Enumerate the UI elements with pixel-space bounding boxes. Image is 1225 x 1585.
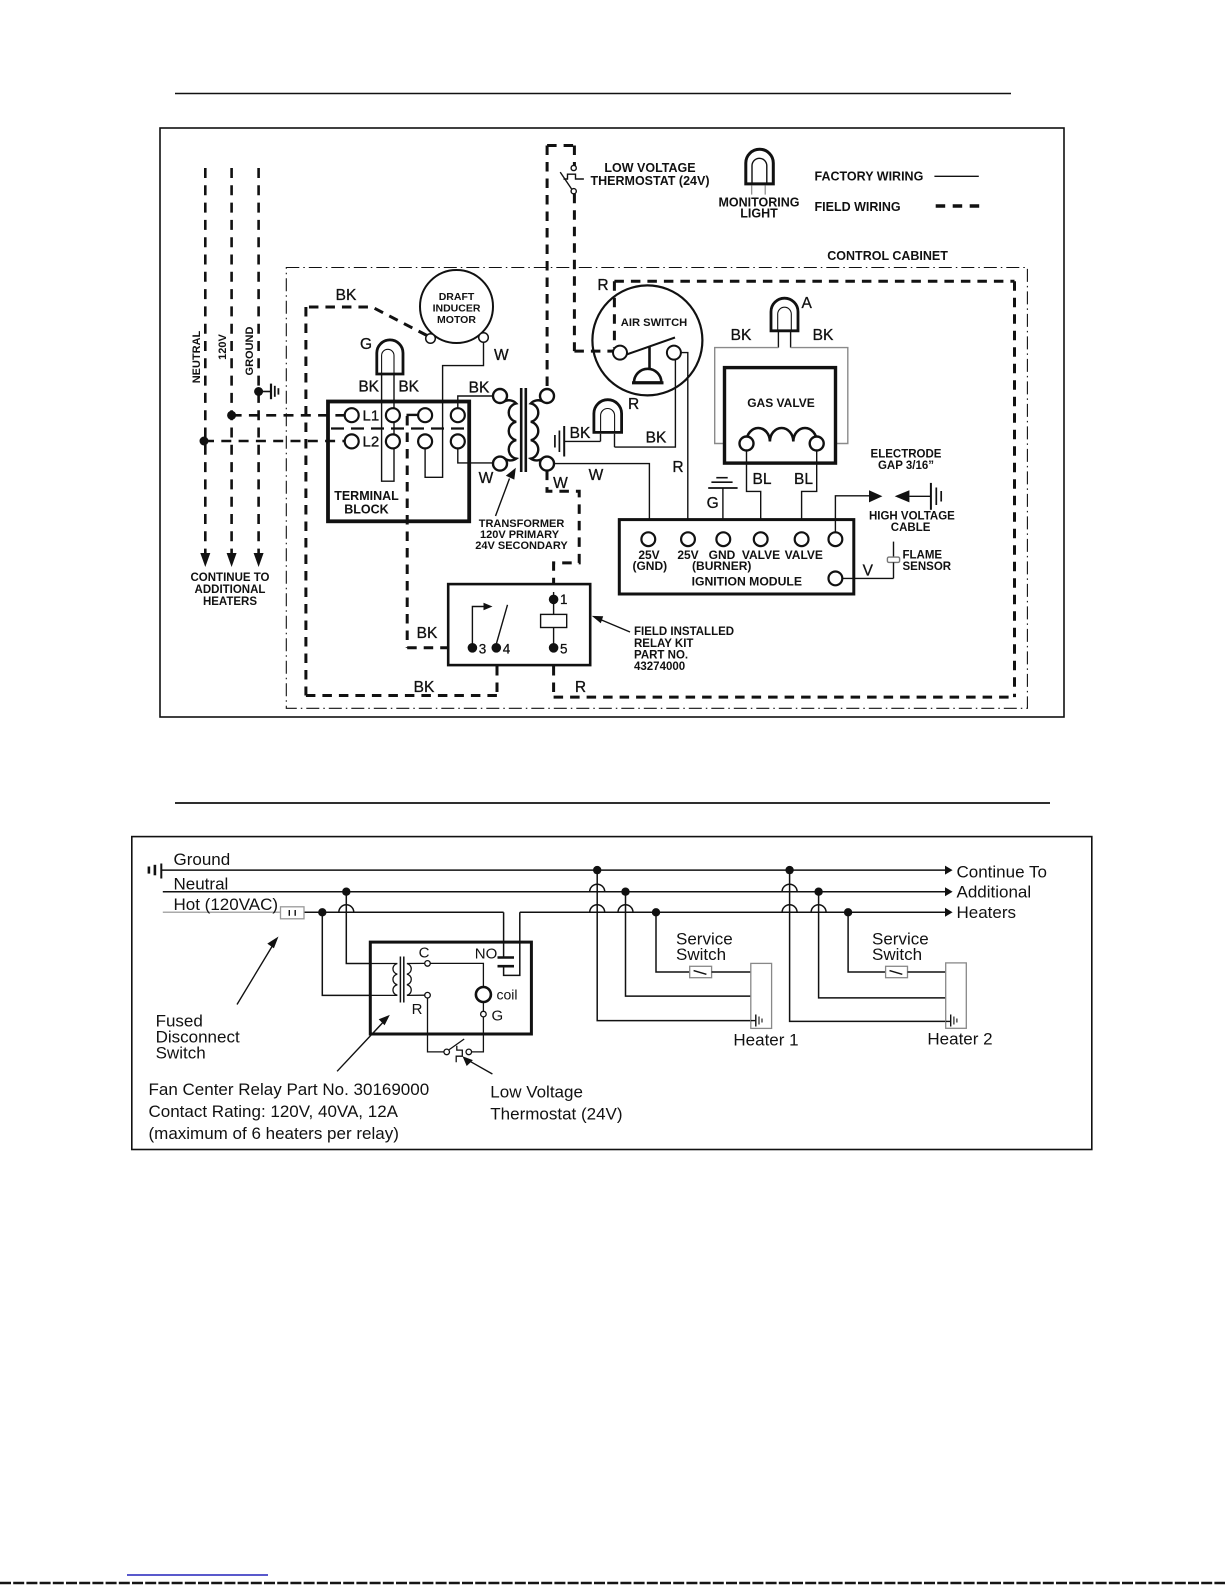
- wire ground drop heater2: [790, 870, 946, 1021]
- wire ground drop heater1: [597, 870, 751, 1021]
- mid horizontal rule: [175, 802, 1050, 804]
- wire hops heater2 hot: [782, 905, 826, 912]
- wire hot drop to fan center primary (hops over neutral drop): [322, 905, 370, 996]
- service switch 1: [676, 930, 733, 978]
- label TRANSFORMER 120V PRIMARY 24V SECONDARY with leader arrow: [475, 468, 568, 552]
- svg-text:W: W: [479, 470, 494, 487]
- high voltage cable spark gap symbol: [869, 483, 941, 510]
- svg-text:W: W: [589, 467, 604, 484]
- svg-text:BK: BK: [813, 327, 834, 344]
- svg-text:BK: BK: [469, 380, 490, 397]
- svg-text:L1: L1: [363, 408, 380, 425]
- wire G to low voltage thermostat: [472, 1017, 484, 1052]
- lamp R (monitoring light R): [570, 396, 667, 447]
- svg-text:BK: BK: [646, 430, 667, 447]
- svg-text:FIELD INSTALLED: FIELD INSTALLED: [634, 626, 734, 638]
- ground symbol (service entrance): [149, 864, 161, 879]
- heater 1: [733, 963, 798, 1049]
- svg-text:RELAY KIT: RELAY KIT: [634, 638, 693, 650]
- svg-text:GROUND: GROUND: [244, 327, 256, 376]
- svg-text:CABLE: CABLE: [891, 522, 931, 534]
- lamp A (monitoring light A): [771, 295, 813, 331]
- wire W solid: T1 secondary bottom to ignition module 25V(GND): [554, 464, 649, 532]
- svg-text:Ground: Ground: [174, 850, 231, 869]
- svg-text:FACTORY WIRING: FACTORY WIRING: [815, 170, 924, 184]
- svg-text:Fan Center Relay Part No. 3016: Fan Center Relay Part No. 30169000: [149, 1080, 430, 1099]
- gas valve: [725, 368, 836, 464]
- heater 1 group: junction nodes: [593, 866, 660, 917]
- wire: spark output pin to high voltage cable: [835, 496, 869, 532]
- ignition module: [619, 520, 854, 594]
- svg-text:THERMOSTAT (24V): THERMOSTAT (24V): [591, 174, 710, 188]
- footnote rule (blue): [127, 1574, 268, 1576]
- svg-text:43274000: 43274000: [634, 661, 685, 673]
- svg-text:BK: BK: [731, 327, 752, 344]
- wire GROUND (field, dashed): [244, 168, 264, 567]
- svg-text:PART NO.: PART NO.: [634, 650, 688, 662]
- svg-text:CONTROL CABINET: CONTROL CABINET: [827, 249, 948, 263]
- svg-text:coil: coil: [497, 987, 518, 1003]
- svg-text:Hot (120VAC): Hot (120VAC): [174, 895, 279, 914]
- bus wire Neutral: [163, 874, 953, 896]
- TB interior dashed divider: [331, 427, 465, 429]
- heater 2: [927, 963, 992, 1049]
- wire W: motor to terminal block col3: [425, 342, 509, 477]
- lamp G wires into TB: [382, 374, 394, 481]
- svg-text:MOTOR: MOTOR: [437, 314, 476, 326]
- svg-text:Thermostat (24V): Thermostat (24V): [490, 1105, 622, 1124]
- label HIGH VOLTAGE CABLE: [869, 511, 955, 534]
- svg-text:BK: BK: [358, 379, 379, 396]
- svg-text:A: A: [802, 295, 813, 312]
- wire BK: field dashed from motor to left run: [306, 287, 427, 696]
- svg-text:(GND): (GND): [632, 559, 667, 573]
- wire BK loop: lamp A legs to gas valve terminals: [715, 327, 848, 444]
- NO contact (to hot feed): [498, 912, 520, 975]
- wire NEUTRAL (field, dashed): [191, 168, 210, 567]
- svg-text:C: C: [419, 945, 430, 962]
- svg-text:ADDITIONAL: ADDITIONAL: [195, 584, 266, 596]
- wire R field dashed loop: air switch to right side to relay pin 5: [554, 277, 1015, 697]
- svg-text:G: G: [360, 336, 372, 353]
- control cabinet boundary (dash-dot): [286, 268, 1027, 709]
- svg-text:5: 5: [560, 642, 568, 657]
- node: ground tap junction: [254, 387, 263, 396]
- svg-text:DRAFT: DRAFT: [439, 291, 475, 303]
- fused disconnect switch: [281, 907, 305, 919]
- svg-text:1: 1: [560, 592, 568, 607]
- wire hops heater2 neutral: [782, 884, 797, 891]
- svg-text:Neutral: Neutral: [174, 874, 229, 893]
- bus wire Ground: [161, 850, 952, 875]
- air switch body (background): [592, 285, 702, 395]
- svg-text:Switch: Switch: [676, 945, 726, 964]
- svg-text:GAP 3/16”: GAP 3/16”: [878, 460, 934, 472]
- TB terminals L1 row: [345, 408, 465, 425]
- svg-text:ELECTRODE: ELECTRODE: [871, 449, 942, 461]
- flame sensor: [842, 542, 951, 580]
- svg-text:BL: BL: [753, 471, 772, 488]
- terminal block TB: [328, 402, 469, 522]
- service switch 2: [872, 930, 929, 978]
- legend FACTORY WIRING: [815, 170, 979, 184]
- wire R to low voltage thermostat: [428, 998, 444, 1052]
- svg-text:R: R: [412, 1001, 423, 1018]
- svg-text:IGNITION MODULE: IGNITION MODULE: [692, 575, 802, 589]
- TB jumper tick row1: [407, 414, 419, 416]
- bus wire Hot (120VAC) with fused disconnect: [163, 895, 953, 917]
- label Fan Center Relay notes with arrow: [149, 1015, 430, 1143]
- svg-text:3: 3: [479, 642, 487, 657]
- svg-text:Switch: Switch: [156, 1044, 206, 1063]
- wire: air switch right contact bottom to lamp R: [615, 360, 676, 447]
- label ELECTRODE GAP 3/16": [871, 449, 942, 472]
- svg-text:HIGH VOLTAGE: HIGH VOLTAGE: [869, 511, 955, 523]
- svg-text:HEATERS: HEATERS: [203, 596, 257, 608]
- svg-text:GAS VALVE: GAS VALVE: [747, 396, 815, 410]
- wire service switch 1 to heater 1: [712, 971, 751, 973]
- svg-text:G: G: [707, 495, 719, 512]
- svg-text:Continue To: Continue To: [957, 862, 1047, 881]
- svg-text:Additional: Additional: [957, 882, 1032, 901]
- svg-text:Heaters: Heaters: [957, 903, 1017, 922]
- svg-text:Contact Rating: 120V, 40VA, 12: Contact Rating: 120V, 40VA, 12A: [149, 1102, 399, 1121]
- top horizontal rule: [175, 93, 1011, 95]
- ground symbol (earth, diagram1 left): [259, 384, 279, 400]
- low voltage thermostat (24V) symbol: [444, 1039, 472, 1062]
- svg-text:G: G: [492, 1008, 504, 1025]
- wire R field dashed from relay pin5 down: [552, 666, 555, 697]
- thermostat switch symbol (24V thermostat): [560, 165, 584, 193]
- label LOW VOLTAGE THERMOSTAT (24V): [591, 161, 710, 188]
- heater 2 group: junction nodes: [785, 866, 852, 917]
- svg-text:TERMINAL: TERMINAL: [334, 489, 399, 503]
- wire BK field dashed into relay pin 3: [407, 625, 466, 648]
- label Fused Disconnect Switch with arrow: [156, 937, 279, 1063]
- svg-text:120V: 120V: [217, 333, 229, 359]
- transformer T1 (120V primary / 24V secondary): [469, 380, 554, 488]
- thermostat: LOW VOLTAGE THERMOSTAT (24V) dashed box stub: [547, 146, 574, 390]
- svg-text:R: R: [672, 459, 683, 476]
- wire hot drop heater1 to service switch: [656, 912, 690, 972]
- svg-text:BK: BK: [398, 379, 419, 396]
- node: hot junction to fan center: [318, 908, 326, 916]
- svg-text:BK: BK: [417, 625, 438, 642]
- wire 120V (field, dashed): [217, 168, 237, 567]
- svg-text:R: R: [597, 277, 608, 294]
- svg-text:INDUCER: INDUCER: [433, 303, 481, 315]
- wire BL right: gas valve to VALVE pin: [794, 451, 817, 532]
- svg-text:Heater 1: Heater 1: [733, 1031, 798, 1050]
- svg-text:LOW VOLTAGE: LOW VOLTAGE: [604, 161, 695, 175]
- svg-text:VALVE: VALVE: [742, 548, 780, 562]
- svg-text:FLAME: FLAME: [903, 550, 943, 562]
- svg-text:R: R: [575, 679, 586, 696]
- svg-text:Low Voltage: Low Voltage: [490, 1083, 583, 1102]
- svg-text:4: 4: [503, 642, 511, 657]
- svg-text:R: R: [628, 396, 639, 413]
- svg-text:CONTINUE TO: CONTINUE TO: [190, 572, 269, 584]
- relay K1 (field installed relay kit): [448, 584, 590, 665]
- svg-text:NO: NO: [475, 946, 498, 963]
- wire L1 field (dashed) with junction on 120V line: [227, 411, 344, 420]
- svg-text:AIR SWITCH: AIR SWITCH: [621, 317, 688, 329]
- wire neutral drop heater1: [626, 892, 751, 996]
- wire field dashed inside TB down to relay pin 3: [406, 416, 409, 648]
- lamp G (monitoring light G): [358, 336, 419, 396]
- svg-text:BK: BK: [570, 425, 591, 442]
- svg-text:LIGHT: LIGHT: [740, 207, 778, 221]
- svg-text:BK: BK: [414, 679, 435, 696]
- wire: thermostat to air switch left contact (field dashed): [574, 194, 613, 351]
- wire BK field dashed bottom: left run to relay pin 4: [306, 666, 497, 696]
- svg-text:(maximum of 6 heaters per rela: (maximum of 6 heaters per relay): [149, 1124, 399, 1143]
- legend lamp MONITORING LIGHT: [718, 149, 799, 220]
- legend FIELD WIRING: [815, 200, 980, 214]
- svg-text:L2: L2: [363, 434, 380, 451]
- ground symbol at lamp R: [555, 426, 601, 457]
- node: neutral junction to fan center: [342, 888, 350, 896]
- motor DRAFT INDUCER MOTOR: [420, 270, 493, 343]
- wire R: air switch right contact to ignition module 25V pin: [672, 353, 687, 532]
- air switch: [592, 285, 702, 395]
- wire W field dashed: T1 secondary bottom to relay pin 1: [547, 471, 579, 592]
- svg-text:VALVE: VALVE: [785, 548, 823, 562]
- wire hops (hot over ground+neutral drops) heater1: [590, 905, 633, 912]
- svg-text:NEUTRAL: NEUTRAL: [191, 330, 203, 383]
- svg-text:BL: BL: [794, 471, 813, 488]
- svg-text:BLOCK: BLOCK: [344, 503, 388, 517]
- TB terminals L2 row: [345, 434, 465, 451]
- svg-text:Switch: Switch: [872, 945, 922, 964]
- svg-text:BK: BK: [336, 287, 357, 304]
- wire neutral drop to fan center primary: [346, 892, 370, 964]
- svg-text:Heater 2: Heater 2: [927, 1030, 992, 1049]
- wire BK col4 to transformer primary top: [458, 396, 500, 410]
- label Low Voltage Thermostat (24V) with arrow: [463, 1056, 623, 1123]
- svg-text:W: W: [553, 475, 568, 492]
- label Continue To Additional Heaters: [957, 862, 1047, 922]
- bottom page dashed rule: [0, 1582, 1225, 1584]
- svg-text:SENSOR: SENSOR: [903, 561, 952, 573]
- ground symbol G above ignition module: [707, 478, 738, 532]
- svg-text:FIELD WIRING: FIELD WIRING: [815, 200, 901, 214]
- svg-text:V: V: [863, 563, 874, 580]
- wire hot drop heater2 to service switch: [848, 912, 886, 972]
- wire service switch 2 to heater 2: [908, 971, 946, 973]
- wire hops (neutral over ground drop) heater1: [590, 884, 605, 891]
- wire L2 field (dashed) with junction on NEUTRAL line: [200, 437, 345, 446]
- fan center relay (Part No. 30169000): [370, 942, 531, 1034]
- wire BL left: gas valve to VALVE pin: [747, 451, 772, 532]
- svg-text:W: W: [494, 347, 509, 364]
- wire neutral drop heater2: [819, 892, 946, 998]
- wire W col4 row2 to transformer primary bottom: [458, 448, 500, 463]
- svg-text:24V SECONDARY: 24V SECONDARY: [475, 540, 568, 552]
- label FIELD INSTALLED RELAY KIT PART NO. 43274000 with leader: [592, 616, 734, 673]
- label CONTINUE TO ADDITIONAL HEATERS: [190, 572, 269, 608]
